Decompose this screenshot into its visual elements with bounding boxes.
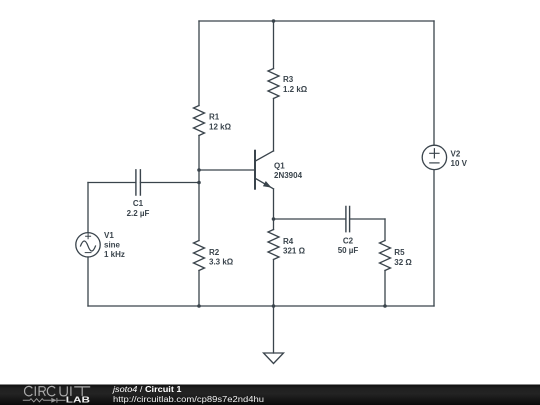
svg-text:Q1: Q1: [274, 161, 285, 170]
resistor R1: [194, 106, 205, 136]
svg-text:1 kHz: 1 kHz: [104, 250, 125, 259]
wire right rail upper: [433, 21, 435, 145]
wire below R5: [384, 271, 386, 307]
resistor R4: [268, 230, 279, 260]
footer bar: [0, 385, 540, 405]
wire emitter branch: [273, 189, 275, 230]
svg-text:R1: R1: [209, 112, 220, 121]
wire between R1 and R2: [198, 136, 200, 241]
svg-text:R3: R3: [283, 75, 294, 84]
ground symbol: [264, 353, 284, 364]
capacitor C2: [346, 207, 350, 232]
svg-text:V2: V2: [451, 149, 461, 158]
node ground junction: [272, 304, 276, 308]
wire C1 right: [140, 182, 199, 184]
wire base: [199, 169, 254, 171]
CircuitLab logo CIRCUIT lettering: [25, 386, 91, 396]
svg-text:50 µF: 50 µF: [338, 246, 359, 255]
transistor Q1 bar: [254, 151, 256, 189]
wire R5 top: [384, 219, 386, 241]
transistor Q1 collector lead: [256, 151, 274, 161]
svg-text:12 kΩ: 12 kΩ: [209, 122, 232, 131]
wire R3 to Q1 collector: [273, 99, 275, 152]
svg-text:http://circuitlab.com/cp89s7e2: http://circuitlab.com/cp89s7e2nd4hu: [113, 394, 264, 404]
CircuitLab logo resistor-diode glyph: [23, 398, 66, 403]
transistor Q1 emitter arrow: [263, 181, 272, 188]
svg-text:321 Ω: 321 Ω: [283, 246, 306, 255]
node R5 bottom junction: [383, 304, 387, 308]
wire V1 bottom: [87, 257, 89, 306]
wire right rail lower: [433, 170, 435, 306]
wire collector branch upper: [273, 21, 275, 69]
source V2 circle: [422, 145, 446, 169]
svg-text:C2: C2: [343, 236, 354, 245]
svg-text:R2: R2: [209, 248, 220, 257]
wire left branch upper: [198, 21, 200, 106]
source V1 sine: [81, 241, 96, 251]
node R2 bottom junction: [197, 304, 201, 308]
svg-text:C1: C1: [133, 199, 144, 208]
svg-text:2N3904: 2N3904: [274, 171, 303, 180]
node base junction: [197, 168, 201, 172]
wire ground stem: [273, 306, 275, 353]
wire below R4: [273, 260, 275, 307]
svg-text:V1: V1: [104, 231, 114, 240]
node emitter/C2 junction: [272, 217, 276, 221]
svg-text:sine: sine: [104, 240, 121, 249]
resistor R2: [194, 241, 205, 271]
node C1 junction: [197, 181, 201, 185]
svg-text:jsoto4 / Circuit 1: jsoto4 / Circuit 1: [112, 384, 182, 394]
wire V1 top: [87, 183, 89, 233]
transistor Q1 emitter lead: [256, 179, 274, 189]
source V1 circle: [76, 233, 100, 257]
svg-text:10 V: 10 V: [451, 159, 468, 168]
svg-text:2.2 µF: 2.2 µF: [127, 209, 150, 218]
source V1 plus: [86, 234, 91, 239]
node top rail junction: [272, 19, 276, 23]
capacitor C1: [136, 170, 141, 195]
source V2 plus: [430, 149, 439, 158]
source V2 minus: [430, 162, 439, 164]
wire C2 left: [274, 218, 346, 220]
resistor R5: [380, 241, 391, 271]
svg-text:R5: R5: [394, 248, 405, 257]
source V1 minus: [85, 252, 91, 254]
wire C1 left: [88, 182, 136, 184]
svg-text:R4: R4: [283, 237, 294, 246]
wire top rail: [199, 20, 434, 22]
wire C2 right: [350, 218, 385, 220]
svg-text:1.2 kΩ: 1.2 kΩ: [283, 85, 308, 94]
wire below R2: [198, 271, 200, 307]
resistor R3: [268, 69, 279, 99]
svg-text:3.3 kΩ: 3.3 kΩ: [209, 258, 234, 267]
svg-text:LAB: LAB: [66, 396, 91, 405]
wire bottom rail: [88, 305, 434, 307]
svg-text:32 Ω: 32 Ω: [394, 258, 412, 267]
